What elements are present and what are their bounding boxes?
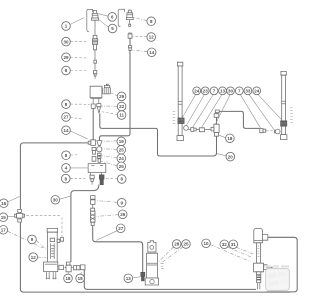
- bracket B2: [118, 9, 124, 26]
- wire E rotameter outlet to bottom line: [84, 270, 256, 290]
- callout 8f: [105, 175, 126, 184]
- callout 4: [62, 164, 88, 173]
- svg-text:24: 24: [254, 88, 260, 93]
- wire B injector2 fuel line: [100, 38, 131, 140]
- injector INJ1 solenoid connector: [92, 35, 97, 60]
- wire I valve body outlet: [267, 266, 273, 268]
- svg-text:27: 27: [63, 115, 69, 120]
- svg-text:17: 17: [1, 228, 7, 233]
- svg-text:13: 13: [220, 88, 226, 93]
- callout 32: [220, 240, 252, 257]
- callout 25c: [161, 240, 191, 264]
- wire D drain to rotameter tee: [71, 185, 99, 262]
- wire G2 fittings to ring right: [266, 130, 275, 132]
- svg-text:26: 26: [120, 212, 126, 217]
- svg-text:25: 25: [119, 164, 125, 169]
- callout 29b: [111, 92, 126, 101]
- callout row 24c: [253, 87, 282, 120]
- callout 30a: [62, 37, 88, 46]
- svg-text:25: 25: [119, 147, 125, 152]
- callout 27a: [62, 113, 82, 122]
- wire C left return line: [20, 143, 290, 292]
- left rail union: [199, 128, 204, 132]
- callout row 7a: [193, 87, 218, 127]
- callout 8b: [134, 17, 156, 26]
- lower connector: [91, 196, 95, 209]
- wire G tee to right bracket: [217, 111, 260, 128]
- svg-text:30: 30: [53, 198, 59, 203]
- wire C2 box left drain: [92, 108, 94, 139]
- coil box U1: [90, 86, 102, 98]
- callout 9b: [96, 198, 126, 207]
- svg-text:30: 30: [63, 39, 69, 44]
- callout row 23: [186, 87, 209, 126]
- box right outlet cone: [97, 98, 101, 113]
- svg-text:20: 20: [228, 154, 234, 159]
- right elbow union: [260, 129, 263, 133]
- callout 14b: [62, 126, 88, 139]
- svg-text:13: 13: [126, 276, 132, 281]
- left rail bolt fitting: [191, 128, 196, 132]
- svg-text:24: 24: [194, 88, 200, 93]
- svg-text:12: 12: [31, 255, 37, 260]
- svg-text:15: 15: [1, 215, 7, 220]
- bolt fitting left: [90, 175, 94, 184]
- coil box right flange: [103, 84, 111, 94]
- callout 29a: [62, 53, 88, 62]
- svg-text:31: 31: [231, 242, 237, 247]
- injector INJ1 top: [92, 10, 99, 35]
- svg-text:12: 12: [149, 35, 155, 40]
- right bolt fitting: [263, 129, 266, 132]
- callout 22: [102, 102, 126, 111]
- callout 28: [159, 240, 181, 262]
- callout row 7b: [235, 87, 260, 128]
- callout 8d: [62, 151, 77, 160]
- fitting at hidden line end: [60, 238, 63, 242]
- callout 8a: [62, 66, 88, 75]
- svg-text:24: 24: [119, 156, 125, 161]
- callout row 30b: [216, 87, 235, 124]
- svg-text:14: 14: [63, 128, 69, 133]
- filter F1 clamp: [148, 241, 156, 252]
- callout 18a: [219, 134, 234, 143]
- callout 25a: [102, 145, 125, 154]
- valve V1 elbow: [262, 235, 267, 241]
- callout 10: [202, 239, 250, 261]
- injector INJ1 band: [94, 60, 97, 63]
- callout row 24b: [181, 87, 200, 120]
- callout 11: [101, 111, 126, 120]
- svg-text:10: 10: [203, 241, 209, 246]
- callout 14a: [132, 48, 157, 57]
- wire A box outlet to tee: [100, 114, 217, 157]
- cross fitting on return line: [15, 209, 25, 222]
- tee fitting T2: [65, 262, 73, 272]
- callout 31: [229, 240, 254, 254]
- washers: [98, 153, 101, 162]
- svg-text:11: 11: [119, 113, 124, 118]
- svg-text:27: 27: [118, 226, 124, 231]
- injector INJ2: [126, 10, 133, 26]
- injector INJ1 nozzle: [94, 70, 97, 78]
- right injector boss dark block: [281, 121, 287, 126]
- outlet elbow: [80, 265, 85, 270]
- callout 27b: [96, 224, 125, 240]
- funnel fitting on line B: [97, 141, 102, 146]
- box left outlet nut: [91, 98, 95, 108]
- mounting plate: [88, 164, 106, 175]
- svg-text:30: 30: [228, 88, 234, 93]
- wire K left manifold fittings: [188, 129, 211, 131]
- rotameter outlet connector: [59, 265, 64, 269]
- wire F spring column to filter: [93, 226, 143, 273]
- callout 17: [0, 226, 43, 249]
- right rail bracket: [281, 71, 287, 139]
- union fitting on line B: [128, 46, 131, 51]
- callout 8c: [62, 100, 90, 109]
- left rail text marks: [173, 111, 176, 123]
- callout 1: [62, 18, 84, 31]
- filter F1 bottom: [145, 278, 158, 285]
- wire J hidden line from cross: [27, 215, 63, 237]
- svg-text:14: 14: [149, 50, 155, 55]
- svg-text:22: 22: [119, 104, 125, 109]
- callout 12b: [29, 253, 47, 262]
- callout 25b: [101, 161, 126, 171]
- callout 16: [0, 197, 20, 208]
- left injector boss dark block: [178, 118, 184, 124]
- left ring fitting: [184, 126, 189, 131]
- svg-text:28: 28: [174, 242, 180, 247]
- callout 20: [217, 152, 235, 161]
- callout 8e: [62, 174, 86, 183]
- left column connector: [92, 147, 96, 161]
- callout 30c: [51, 196, 70, 205]
- callout 26: [96, 210, 127, 219]
- callout 18b: [64, 272, 73, 283]
- left rail bracket: [177, 62, 183, 140]
- part label marks: [161, 264, 164, 269]
- right rail text marks: [290, 107, 293, 122]
- dark inlet bolt: [141, 272, 145, 280]
- injector INJ1 lower shaft: [94, 63, 96, 70]
- dark fitting Q: [99, 173, 104, 185]
- rotameter FM1: [44, 228, 60, 279]
- watermark logo box: [266, 269, 290, 291]
- valve V1 bottom stud: [257, 272, 261, 289]
- spring damper part: [90, 208, 95, 225]
- svg-text:29: 29: [63, 55, 69, 60]
- callout 9a: [28, 235, 47, 249]
- ring fitting: [97, 147, 102, 152]
- svg-text:18: 18: [227, 136, 233, 141]
- svg-text:18: 18: [65, 276, 71, 281]
- svg-text:29: 29: [119, 94, 125, 99]
- filter F1 body: [147, 253, 158, 278]
- svg-text:25: 25: [183, 242, 189, 247]
- callout 24a: [101, 154, 126, 163]
- outlet union: [74, 266, 80, 270]
- callout 19b: [76, 272, 85, 283]
- svg-text:16: 16: [1, 201, 7, 206]
- right ring fitting: [275, 129, 280, 134]
- svg-text:23: 23: [203, 88, 209, 93]
- wire H valve loop right: [267, 237, 298, 292]
- svg-text:19: 19: [119, 139, 125, 144]
- nut on line B: [128, 33, 132, 38]
- callout row 33: [244, 87, 274, 130]
- callout 6: [99, 13, 116, 22]
- left elbow to return line: [88, 140, 95, 146]
- svg-text:32: 32: [222, 242, 228, 247]
- callout 15: [0, 213, 15, 222]
- callout 13b: [124, 274, 140, 283]
- valve V1 top cap: [254, 229, 263, 243]
- svg-text:19: 19: [78, 276, 84, 281]
- svg-text:33: 33: [245, 88, 251, 93]
- tee fitting T1: [211, 110, 219, 136]
- valve V1 body: [254, 263, 267, 272]
- valve V1 stem: [256, 243, 260, 263]
- callout row 13: [202, 87, 227, 128]
- callout 19a: [103, 137, 126, 146]
- callout 12a: [133, 33, 156, 42]
- watermark band: [264, 265, 289, 267]
- callout 5: [99, 20, 117, 33]
- bracket B1: [87, 9, 93, 31]
